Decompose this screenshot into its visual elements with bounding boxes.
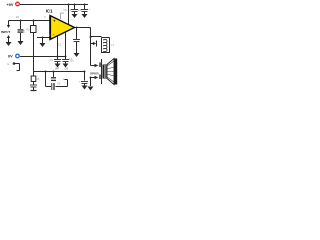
svg-text:C2: C2 bbox=[58, 43, 62, 47]
svg-text:INPUT: INPUT bbox=[1, 30, 10, 34]
svg-text:+9V: +9V bbox=[7, 3, 14, 7]
svg-text:+: + bbox=[53, 19, 56, 24]
svg-text:C5: C5 bbox=[64, 8, 68, 12]
svg-text:R5: R5 bbox=[36, 77, 40, 81]
svg-text:C8: C8 bbox=[65, 67, 69, 71]
svg-text:C7: C7 bbox=[71, 59, 75, 63]
svg-text:C3: C3 bbox=[50, 58, 54, 62]
svg-text:E: E bbox=[8, 62, 10, 66]
svg-text:C1: C1 bbox=[22, 30, 26, 34]
svg-text:R4: R4 bbox=[56, 67, 60, 71]
svg-text:0V: 0V bbox=[8, 55, 13, 59]
svg-text:IC1: IC1 bbox=[46, 8, 53, 13]
svg-text:SPKR: SPKR bbox=[90, 72, 99, 76]
svg-text:R1: R1 bbox=[16, 15, 20, 19]
svg-text:R2: R2 bbox=[27, 28, 31, 32]
svg-text:C6: C6 bbox=[78, 8, 82, 12]
svg-text:C9: C9 bbox=[57, 82, 61, 86]
